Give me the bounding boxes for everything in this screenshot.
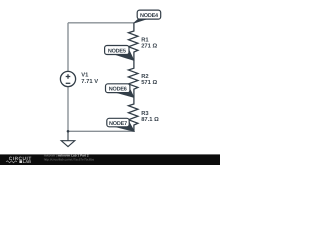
ground (61, 131, 75, 146)
footer credit text (44, 154, 94, 162)
svg-text:NODE4: NODE4 (140, 13, 159, 19)
resistor R1 (128, 23, 138, 60)
svg-text:NODE6: NODE6 (109, 87, 127, 93)
node NODE6 label (106, 84, 134, 98)
label R2 value (141, 73, 157, 86)
junction ground node (67, 130, 70, 133)
node NODE5 label (105, 46, 134, 61)
wire left lower (67, 87, 69, 132)
svg-text:http://circuitlab.com/c/7ac67e: http://circuitlab.com/c/7ac67e7bc6ba (44, 158, 94, 162)
svg-text:571 Ω: 571 Ω (141, 79, 157, 86)
node NODE7 label (107, 118, 135, 131)
resistor R3 (128, 97, 138, 131)
svg-text:271 Ω: 271 Ω (141, 43, 157, 50)
svg-text:LAB: LAB (23, 159, 31, 164)
CircuitLab logo (6, 156, 32, 164)
label V1 value (81, 73, 98, 85)
svg-text:7.71 V: 7.71 V (81, 79, 98, 85)
svg-text:NODE5: NODE5 (108, 48, 126, 54)
footer bar (0, 154, 220, 165)
resistor R2 (128, 60, 138, 97)
voltage source V1 (60, 71, 75, 86)
wire bottom (node7 net) (68, 130, 134, 132)
svg-text:87.1 Ω: 87.1 Ω (141, 116, 159, 123)
svg-text:R3: R3 (141, 110, 149, 117)
svg-text:R1: R1 (141, 38, 149, 44)
label R1 value (141, 38, 157, 50)
wire left upper (67, 23, 69, 71)
svg-text:V1: V1 (81, 73, 89, 79)
wire top (node4 net) (68, 22, 134, 24)
svg-text:NODE7: NODE7 (109, 121, 127, 127)
label R3 value (141, 110, 159, 123)
node NODE4 label (134, 10, 161, 23)
svg-text:R2: R2 (141, 73, 148, 80)
